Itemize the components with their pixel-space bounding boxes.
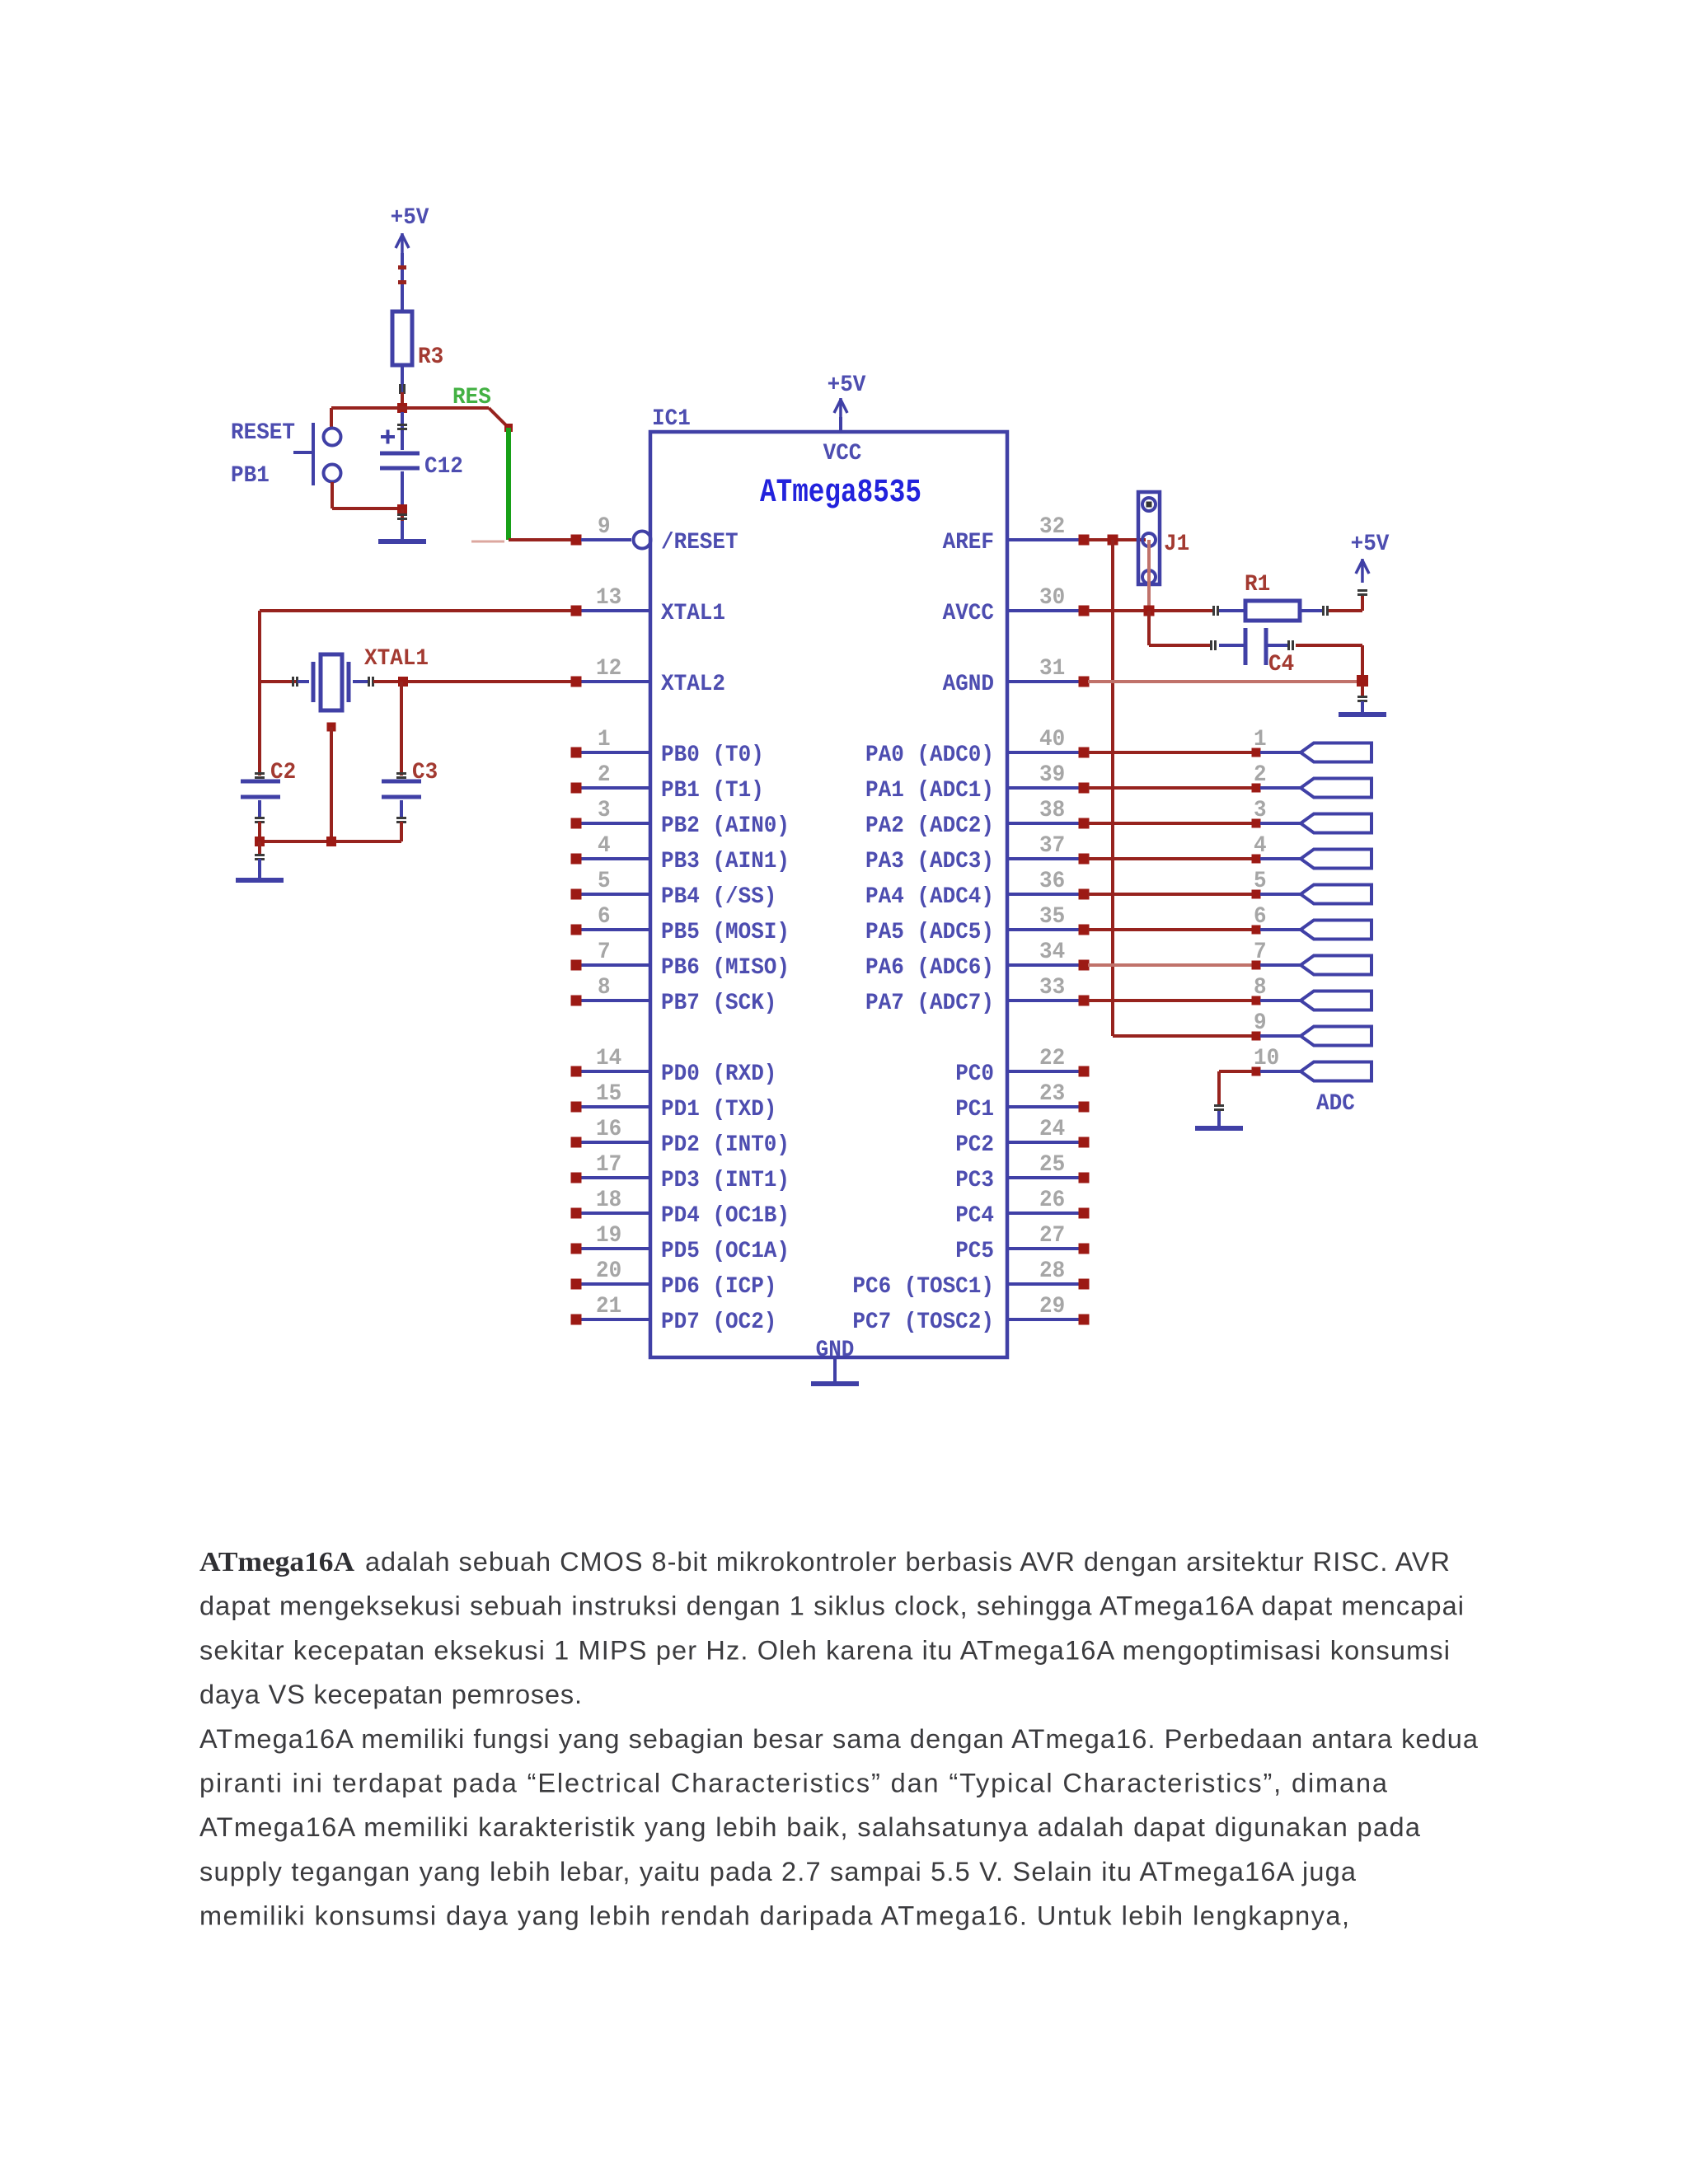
wire PA4 to ADC pin 5 [1088,893,1253,896]
svg-text:24: 24 [1039,1117,1065,1142]
svg-text:22: 22 [1039,1046,1065,1071]
pin label PD4 (OC1B) [661,1203,790,1229]
pin number 15 [596,1081,621,1107]
paragraph line 8 [199,1857,1357,1886]
svg-text:4: 4 [598,833,611,859]
svg-text:PA7 (ADC7): PA7 (ADC7) [865,991,994,1016]
pin label PA5 (ADC5) [865,920,994,945]
svg-text:PB5 (MOSI): PB5 (MOSI) [661,920,790,945]
pin number 39 [1039,762,1065,788]
pin number 14 [596,1046,621,1071]
pin label PD3 (INT1) [661,1168,790,1193]
svg-text:PC7 (TOSC2): PC7 (TOSC2) [852,1310,994,1335]
pin 4 stub (left) [571,854,651,865]
svg-text:39: 39 [1039,762,1065,788]
svg-text:PA1 (ADC1): PA1 (ADC1) [865,778,994,804]
pin label PA0 (ADC0) [865,743,994,768]
pin number 25 [1039,1152,1065,1178]
pin 39 stub (right) [1007,783,1090,794]
pin label PD7 (OC2) [661,1310,776,1335]
wire ADC pin 10 to ground [1214,1070,1253,1111]
pin label PB4 (/SS) [661,884,776,910]
power +5V net label (VCC) [828,373,866,398]
pin label PD1 (TXD) [661,1097,776,1122]
paragraph line 3 [199,1635,1450,1665]
net RES horizontal wire [331,406,489,410]
svg-text:38: 38 [1039,798,1065,823]
svg-text:36: 36 [1039,869,1065,894]
pin number 28 [1039,1258,1065,1284]
pin 21 stub (left) [571,1315,651,1325]
svg-text:ATmega16A memiliki karakterist: ATmega16A memiliki karakteristik yang le… [199,1812,1421,1842]
pin label PB0 (T0) [661,743,764,768]
pin label PC4 [955,1203,994,1229]
svg-text:ATmega16A: ATmega16A [199,1547,354,1577]
label J1 [1164,532,1189,557]
svg-text:30: 30 [1039,585,1065,611]
junction AGND / C4 / ground [1357,675,1368,687]
svg-text:4: 4 [1254,833,1267,859]
pin number 32 [1039,514,1065,540]
ground right of C4 [1339,701,1386,717]
wire PA6 to ADC pin 7 [1088,963,1253,967]
svg-text:35: 35 [1039,904,1065,930]
pin number 38 [1039,798,1065,823]
svg-text:adalah sebuah CMOS 8-bit mikro: adalah sebuah CMOS 8-bit mikrokontroler … [365,1547,1450,1577]
wire PA2 to ADC pin 3 [1088,822,1253,825]
pin 14 stub (left) [571,1066,651,1077]
svg-text:+5V: +5V [828,373,866,398]
svg-text:1: 1 [598,727,611,752]
label PB1 [231,463,270,489]
svg-text:PD3 (INT1): PD3 (INT1) [661,1168,790,1193]
wire PA7 to ADC pin 8 [1088,999,1253,1002]
pin label XTAL2 [661,672,725,697]
connector ADC pin 10 wire end [1252,1067,1301,1076]
pin 36 stub (right) [1007,889,1090,900]
connector ADC pin 3 [1301,814,1371,833]
svg-text:piranti ini terdapat pada “Ele: piranti ini terdapat pada “Electrical Ch… [199,1769,1388,1798]
svg-text:PD2 (INT0): PD2 (INT0) [661,1132,790,1158]
svg-text:+5V: +5V [1351,532,1390,557]
pin 40 stub (right) [1007,748,1090,758]
wire PA3 to ADC pin 4 [1088,857,1253,860]
pin label PD5 (OC1A) [661,1239,790,1264]
pin label PC1 [955,1097,994,1122]
junction C12 bottom [397,504,407,514]
pin number 13 [596,585,621,611]
power +5V arrow (right) [1356,559,1369,596]
resistor R1 [1245,601,1300,621]
svg-text:PC3: PC3 [955,1168,994,1193]
pin 23 stub (right) [1007,1102,1090,1113]
svg-text:PD1 (TXD): PD1 (TXD) [661,1097,776,1122]
pin 37 stub (right) [1007,854,1090,865]
connector ADC pin 7 [1301,956,1371,975]
svg-text:13: 13 [596,585,621,611]
svg-text:J1: J1 [1164,532,1189,557]
svg-text:supply tegangan yang lebih leb: supply tegangan yang lebih lebar, yaitu … [199,1857,1357,1886]
junction RES corner [504,424,513,432]
connector ADC pin 2 [1301,779,1371,798]
svg-text:AREF: AREF [943,530,994,555]
ground below C2 [236,859,284,883]
pin number 1 [598,727,611,752]
pin 5 stub (left) [571,889,651,900]
paragraph line 2 [199,1591,1464,1621]
pin label AVCC [943,601,995,626]
wire rail to ground [255,841,265,860]
svg-text:37: 37 [1039,833,1065,859]
label ATmega8535 [760,475,921,512]
junction crystal case stub [327,723,336,732]
svg-text:PB1: PB1 [231,463,270,489]
svg-text:16: 16 [596,1117,621,1142]
svg-text:15: 15 [596,1081,621,1107]
svg-text:2: 2 [1254,762,1267,788]
svg-text:PC2: PC2 [955,1132,994,1158]
pin number 12 [596,656,621,682]
wire AREF to J1 [1088,538,1146,541]
junction rail center [326,837,336,846]
wire AVCC to R1 [1088,606,1245,616]
label C2 [270,760,296,785]
IC IC1 ATmega8535 outline [650,432,1007,1357]
svg-text:33: 33 [1039,975,1065,1001]
connector ADC pin 8 [1301,991,1371,1010]
wire PA5 to ADC pin 6 [1088,928,1253,931]
svg-text:27: 27 [1039,1223,1065,1249]
pin label PD2 (INT0) [661,1132,790,1158]
wire crystal case to ground rail [330,727,333,841]
pin 24 stub (right) [1007,1137,1090,1148]
pin 27 stub (right) [1007,1244,1090,1254]
label XTAL1 (crystal) [364,646,429,672]
label RES (net name) [452,385,491,410]
svg-text:14: 14 [596,1046,621,1071]
junction AREF column [1108,535,1118,546]
svg-text:9: 9 [598,514,611,540]
pin number 6 [598,904,611,930]
svg-text:2: 2 [598,762,611,788]
svg-text:+5V: +5V [391,205,429,231]
svg-text:1: 1 [1254,727,1267,752]
pin label PA4 (ADC4) [865,884,994,910]
svg-text:40: 40 [1039,727,1065,752]
pin label PA7 (ADC7) [865,991,994,1016]
paragraph line 4 [199,1680,582,1709]
svg-text:23: 23 [1039,1081,1065,1107]
pin number 35 [1039,904,1065,930]
svg-text:10: 10 [1254,1046,1279,1071]
pin number 34 [1039,940,1065,965]
pin number 16 [596,1117,621,1142]
pin label PB5 (MOSI) [661,920,790,945]
pin number 5 [598,869,611,894]
junction AVCC / J1 / C4 [1144,606,1155,616]
pin label XTAL1 [661,601,725,626]
svg-text:memiliki konsumsi daya yang le: memiliki konsumsi daya yang lebih rendah… [199,1901,1349,1931]
label GND [816,1338,855,1363]
connector ADC pin 4 wire end [1252,855,1301,864]
svg-text:C4: C4 [1268,652,1294,677]
pin number 10 (ADC) [1254,1046,1279,1071]
svg-text:PC5: PC5 [955,1239,994,1264]
ground below IC (GND pin) [811,1357,859,1386]
svg-text:9: 9 [1254,1010,1267,1036]
connector ADC pin 7 wire end [1252,961,1301,970]
svg-text:5: 5 [598,869,611,894]
wire R3 bottom to RES node [399,365,406,404]
svg-text:PA5 (ADC5): PA5 (ADC5) [865,920,994,945]
svg-text:XTAL2: XTAL2 [661,672,725,697]
pin 3 stub (left) [571,818,651,829]
wire RES to /RESET pin [471,538,572,543]
pin 18 stub (left) [571,1208,651,1219]
pin number 9 [598,514,611,540]
svg-text:18: 18 [596,1188,621,1213]
label R3 [418,344,443,370]
wire crystal right to XTAL2 pin12 [368,677,572,687]
svg-text:3: 3 [1254,798,1267,823]
wire switch bottom to C12 bottom [331,482,397,510]
svg-text:25: 25 [1039,1152,1065,1178]
pin 31 stub (right) [1007,677,1090,687]
svg-text:PD4 (OC1B): PD4 (OC1B) [661,1203,790,1229]
pin number 9 (ADC) [1254,1010,1267,1036]
svg-text:ATmega8535: ATmega8535 [760,475,921,512]
svg-text:PD7 (OC2): PD7 (OC2) [661,1310,776,1335]
svg-text:21: 21 [596,1294,621,1319]
pin number 2 (ADC) [1254,762,1267,788]
svg-text:PA2 (ADC2): PA2 (ADC2) [865,813,994,839]
pin label AREF [943,530,994,555]
pin 15 stub (left) [571,1102,651,1113]
connector ADC pin 1 wire end [1252,748,1301,757]
pin 34 stub (right) [1007,960,1090,971]
pin number 8 (ADC) [1254,975,1267,1001]
connector ADC pin 1 [1301,743,1371,762]
connector ADC pin 6 [1301,921,1371,940]
pin label PB7 (SCK) [661,991,776,1016]
capacitor C3 [382,682,421,841]
svg-text:20: 20 [596,1258,621,1284]
svg-text:PC1: PC1 [955,1097,994,1122]
pin label PD0 (RXD) [661,1062,776,1087]
svg-text:PB6 (MISO): PB6 (MISO) [661,955,790,981]
pin number 18 [596,1188,621,1213]
pin label PA2 (ADC2) [865,813,994,839]
connector ADC pin 2 wire end [1252,784,1301,793]
connector ADC pin 10 [1301,1062,1371,1081]
pin 9 stub with inversion bubble (/RESET) [571,532,651,549]
svg-text:C12: C12 [424,454,463,480]
svg-text:31: 31 [1039,656,1065,682]
svg-text:AVCC: AVCC [943,601,995,626]
wire crystal left lead [260,677,298,687]
svg-text:PD5 (OC1A): PD5 (OC1A) [661,1239,790,1264]
svg-text:/RESET: /RESET [661,530,738,555]
pin number 6 (ADC) [1254,904,1267,930]
svg-text:PA0 (ADC0): PA0 (ADC0) [865,743,994,768]
wire C4 to AGND node [1296,644,1364,677]
svg-text:PC6 (TOSC1): PC6 (TOSC1) [852,1274,994,1300]
pin number 8 [598,975,611,1001]
connector J1 (jumper) [1138,492,1160,611]
junction crystal right / C3 [398,677,408,687]
wire XTAL1 pin13 to crystal left [258,609,572,682]
pin label PC6 (TOSC1) [852,1274,994,1300]
paragraph: ATmega16A description (line 1) [199,1547,1450,1577]
label C12 [424,454,463,480]
svg-text:dapat mengeksekusi sebuah inst: dapat mengeksekusi sebuah instruksi deng… [199,1591,1464,1621]
pin 20 stub (left) [571,1279,651,1290]
paragraph line 6 [199,1769,1388,1798]
pin 22 stub (right) [1007,1066,1090,1077]
connector ADC pin 9 wire end [1252,1032,1301,1041]
pin label PC0 [955,1062,994,1087]
pin 2 stub (left) [571,783,651,794]
pin number 31 [1039,656,1065,682]
wire R1 to +5V [1300,595,1364,616]
pin 28 stub (right) [1007,1279,1090,1290]
power +5V net label (right) [1351,532,1390,557]
pin number 36 [1039,869,1065,894]
pin number 7 (ADC) [1254,940,1267,965]
pin label PB6 (MISO) [661,955,790,981]
pin label PB1 (T1) [661,778,764,804]
pin 33 stub (right) [1007,996,1090,1006]
pin 32 stub (right) [1007,535,1090,546]
pin number 37 [1039,833,1065,859]
pin 38 stub (right) [1007,818,1090,829]
svg-text:XTAL1: XTAL1 [364,646,429,672]
pin number 24 [1039,1117,1065,1142]
pin label PB3 (AIN1) [661,849,790,874]
wire PA0 to ADC pin 1 [1088,751,1253,754]
pin number 22 [1039,1046,1065,1071]
label IC1 [652,406,691,432]
svg-text:PD6 (ICP): PD6 (ICP) [661,1274,776,1300]
pin number 21 [596,1294,621,1319]
pin 1 stub (left) [571,748,651,758]
connector ADC pin 9 [1301,1027,1371,1046]
pin number 1 (ADC) [1254,727,1267,752]
pin label PC3 [955,1168,994,1193]
pin label PC2 [955,1132,994,1158]
pin number 17 [596,1152,621,1178]
svg-text:PD0 (RXD): PD0 (RXD) [661,1062,776,1087]
label VCC [823,441,862,466]
pin label PC7 (TOSC2) [852,1310,994,1335]
power +5V net label (top left) [391,205,429,231]
pin label PC5 [955,1239,994,1264]
svg-text:PA6 (ADC6): PA6 (ADC6) [865,955,994,981]
wire AGND [1088,680,1362,683]
pin number 4 (ADC) [1254,833,1267,859]
pin number 30 [1039,585,1065,611]
svg-text:ATmega16A memiliki fungsi yang: ATmega16A memiliki fungsi yang sebagian … [199,1724,1479,1754]
paragraph line 9 [199,1901,1349,1931]
pin number 20 [596,1258,621,1284]
svg-text:C3: C3 [412,760,438,785]
label ADC [1316,1091,1355,1117]
svg-text:PB2 (AIN0): PB2 (AIN0) [661,813,790,839]
pin label PB2 (AIN0) [661,813,790,839]
svg-text:PA4 (ADC4): PA4 (ADC4) [865,884,994,910]
svg-text:PC4: PC4 [955,1203,994,1229]
pin 7 stub (left) [571,960,651,971]
pin 29 stub (right) [1007,1315,1090,1325]
svg-text:17: 17 [596,1152,621,1178]
capacitor C12 plus sign [381,430,395,444]
pin number 5 (ADC) [1254,869,1267,894]
pin 25 stub (right) [1007,1173,1090,1183]
svg-text:PA3 (ADC3): PA3 (ADC3) [865,849,994,874]
pin 8 stub (left) [571,996,651,1006]
svg-text:5: 5 [1254,869,1267,894]
label C4 [1268,652,1294,677]
svg-text:PB0 (T0): PB0 (T0) [661,743,764,768]
pin 12 stub [571,677,651,687]
pin 35 stub (right) [1007,925,1090,935]
switch PB1 (pushbutton) [293,423,341,485]
wire RES highlighted green segment [506,428,511,540]
svg-text:12: 12 [596,656,621,682]
label RESET [231,420,295,446]
ground below ADC pin 10 [1195,1111,1243,1131]
pin 13 stub [571,606,651,616]
svg-text:19: 19 [596,1223,621,1249]
capacitor C12 [380,412,420,504]
connector ADC pin 8 wire end [1252,996,1301,1005]
svg-text:PB1 (T1): PB1 (T1) [661,778,764,804]
pin number 7 [598,940,611,965]
pin 17 stub (left) [571,1173,651,1183]
svg-text:6: 6 [1254,904,1267,930]
pin number 27 [1039,1223,1065,1249]
svg-text:PB7 (SCK): PB7 (SCK) [661,991,776,1016]
svg-text:R1: R1 [1245,572,1270,598]
svg-text:29: 29 [1039,1294,1065,1319]
pin number 2 [598,762,611,788]
svg-text:7: 7 [1254,940,1267,965]
pin label PD6 (ICP) [661,1274,776,1300]
svg-text:AGND: AGND [943,672,994,697]
junction RES node [397,403,407,413]
junction rail left [255,837,265,846]
label R1 [1245,572,1270,598]
svg-text:XTAL1: XTAL1 [661,601,725,626]
svg-text:3: 3 [598,798,611,823]
pin label AGND [943,672,994,697]
label C3 [412,760,438,785]
wire ground rail under crystal [260,840,401,843]
svg-text:PC0: PC0 [955,1062,994,1087]
pin number 3 (ADC) [1254,798,1267,823]
wire C4 branch [1147,611,1244,650]
capacitor C4 [1244,628,1295,665]
resistor R3 [392,312,412,365]
connector ADC pin 6 wire end [1252,926,1301,935]
pin number 3 [598,798,611,823]
wire switch top drop [330,408,333,428]
svg-text:daya VS kecepatan pemroses.: daya VS kecepatan pemroses. [199,1680,582,1709]
paragraph line 5 [199,1724,1479,1754]
pin number 29 [1039,1294,1065,1319]
wire AREF column down to ADC9 [1111,540,1253,1038]
crystal XTAL1 [298,654,368,710]
